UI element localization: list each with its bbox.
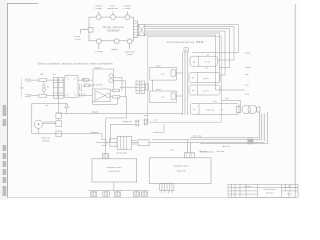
module U2 (sub-block 1)	[190, 56, 218, 66]
connector X7 (left side socket)	[88, 27, 93, 32]
filter capacitor C2	[80, 93, 82, 97]
svg-text:лист 1: лист 1	[287, 194, 292, 196]
connector X2 (top circle 2)	[112, 11, 114, 14]
svg-text:Вил ком: Вил ком	[217, 151, 225, 153]
transistor VT2	[109, 74, 113, 78]
lamp group wiring under box 1	[88, 182, 174, 196]
svg-text:вн пт: вн пт	[205, 62, 210, 64]
connector on top of box 2	[184, 153, 194, 158]
wire from T1 tap	[58, 98, 60, 103]
left bus wire	[31, 103, 33, 133]
input terminal 2	[28, 94, 31, 97]
pin connector under box 2	[160, 184, 175, 191]
svg-text:Общий: Общий	[91, 110, 99, 113]
oscillator sub-box	[92, 89, 110, 102]
module U5 (output amplifier)	[191, 103, 240, 114]
svg-text:дн: дн	[207, 55, 209, 57]
phase box 1 (Фазовая сетка ламп)	[92, 140, 211, 184]
svg-text:ЛЭ380ЛУ: ЛЭ380ЛУ	[107, 29, 120, 33]
jack down wire	[109, 124, 111, 142]
svg-text:цепь: цепь	[144, 115, 148, 117]
switch SA1	[34, 120, 42, 128]
module U4 (sub-block 3)	[189, 85, 220, 95]
connector X1 (top circle 1)	[98, 11, 100, 14]
harness bus panel-to-synchronizer	[145, 25, 239, 91]
wire box to coupler	[221, 101, 241, 107]
control panel unit A1 (Пульт запуска)	[89, 17, 133, 41]
svg-text:ламп 32-37: ламп 32-37	[108, 171, 120, 173]
svg-text:Схема блока: Схема блока	[264, 189, 277, 191]
bottom interconnect wiring	[96, 119, 268, 153]
feedback loop upper	[93, 69, 114, 89]
svg-text:дк шт: дк шт	[203, 78, 208, 80]
output wire to T2	[110, 90, 120, 92]
resistor R6	[113, 96, 120, 99]
svg-text:ламп ЛЧ: ламп ЛЧ	[177, 171, 186, 173]
svg-text:Фазовая сетка: Фазовая сетка	[107, 166, 122, 169]
cable line C (through assembly)	[96, 141, 264, 143]
connector X4 (bottom circle 1)	[98, 44, 100, 49]
svg-text:с сеточн.: с сеточн.	[123, 8, 132, 10]
lamp E2	[56, 121, 62, 127]
connector X5 (bottom circle 2)	[114, 39, 119, 44]
section heading	[38, 63, 113, 66]
svg-text:синхр: синхр	[245, 67, 251, 69]
lamp plug 1	[93, 191, 95, 192]
svg-text:общ: общ	[245, 94, 249, 96]
svg-text:гнездо изм: гнездо изм	[122, 121, 133, 123]
neon lamp HL1	[43, 85, 46, 88]
lamp plug 3	[117, 191, 119, 192]
plug XS1 with cross	[138, 25, 145, 36]
wires bus to box2	[188, 140, 191, 153]
comparator DA1	[95, 91, 105, 101]
wire 5	[145, 33, 220, 83]
connecting wires	[39, 103, 59, 133]
mains rail L	[29, 79, 65, 81]
resistor R3	[84, 84, 89, 87]
transistor VT3	[109, 79, 113, 83]
svg-text:изм лист: изм лист	[245, 186, 252, 188]
left margin stamp marks	[3, 105, 7, 196]
plug P1	[135, 120, 140, 127]
module cell marks and texts	[185, 50, 230, 111]
filter capacitor C1	[79, 85, 83, 91]
svg-text:общий: общий	[111, 48, 118, 51]
net labels right of harness	[245, 53, 251, 96]
fuse FU1	[39, 79, 47, 82]
svg-text:питания: питания	[266, 193, 274, 195]
input terminal 1	[28, 79, 31, 82]
svg-text:~220 В: ~220 В	[74, 39, 81, 41]
svg-text:лит: лит	[288, 186, 291, 188]
svg-text:дт: дт	[205, 67, 207, 69]
svg-text:сша ххв: сша ххв	[206, 109, 215, 111]
synchronizer unit A2 (Синхронизатор ЛБМ)	[148, 36, 221, 122]
coupling wires to T2	[88, 78, 125, 97]
resistor R5	[113, 89, 120, 92]
terminal labels above panel	[94, 6, 131, 11]
connector X6 (bottom circle 3)	[129, 44, 131, 49]
DIN device switch subcircuit	[32, 98, 183, 136]
wire 6	[145, 35, 220, 90]
return wire	[32, 133, 102, 135]
internal bus wire c	[186, 52, 188, 115]
relay block K2 (left lower)	[150, 91, 177, 103]
dc output wire -	[78, 95, 92, 97]
panel title text	[103, 25, 124, 32]
lamp E1	[56, 113, 62, 119]
svg-text:к пусковой: к пусковой	[124, 50, 135, 53]
transformer T1 winding I	[53, 77, 57, 98]
svg-text:вилка шир: вилка шир	[116, 153, 127, 155]
fuse FU2	[39, 94, 47, 97]
wire 3	[145, 29, 230, 68]
wire K1 to bus	[176, 72, 182, 74]
wire to mains	[80, 30, 88, 34]
svg-text:шк пт: шк пт	[203, 90, 208, 92]
phase box 2 (Фазовая сетка ЛЧ)	[149, 158, 211, 184]
wire oscillator to T2	[120, 86, 136, 88]
wire 1	[145, 25, 239, 53]
lamp plug 4	[136, 191, 138, 192]
component designator row	[19, 74, 103, 96]
wire U4 to label	[220, 89, 245, 91]
cable line D	[200, 142, 268, 144]
transformer T2	[120, 81, 149, 94]
frame right border	[294, 4, 296, 198]
diode VD3	[65, 103, 69, 107]
svg-text:R1 C3 VD2: R1 C3 VD2	[93, 84, 104, 86]
svg-text:Фазовая сетка: Фазовая сетка	[174, 165, 189, 168]
input pad U1	[184, 48, 188, 52]
terminal labels below panel	[74, 36, 136, 56]
wire down to phase box	[106, 97, 127, 154]
svg-text:дн т: дн т	[161, 97, 165, 99]
wire 2	[145, 27, 234, 61]
cable line A	[190, 137, 260, 139]
internal bus wire b	[184, 52, 186, 115]
lamp plug 5	[144, 191, 146, 192]
connector on cable K3	[248, 139, 254, 145]
plug P2	[144, 119, 149, 126]
stub wire	[200, 151, 214, 153]
common wire (Общий)	[56, 112, 183, 114]
svg-text:~220: ~220	[19, 88, 23, 90]
top wire	[32, 102, 67, 104]
inline connector assembly XT1	[102, 140, 106, 146]
svg-text:К сети: К сети	[74, 36, 81, 38]
cable line B	[152, 139, 262, 141]
test jack wire	[110, 123, 135, 125]
resistor R2	[83, 79, 88, 82]
svg-text:Возврат: Возврат	[91, 132, 99, 134]
connector on top of box 1	[102, 154, 108, 159]
dimension bracket	[20, 78, 22, 97]
lamp plug 2	[105, 191, 107, 192]
frame top-left segment	[8, 2, 39, 4]
lamp E3	[56, 131, 62, 137]
drain wire stub	[153, 124, 164, 132]
svg-text:Синхронизатор ЛБМ: Синхронизатор ЛБМ	[167, 40, 204, 44]
feedback loop wire	[93, 97, 118, 105]
rectifier bridge VD1	[65, 76, 78, 98]
mains rail N	[29, 95, 65, 97]
svg-text:Выкл дн: Выкл дн	[42, 138, 50, 140]
wire K2 to bus	[176, 95, 182, 97]
return drop	[101, 134, 103, 140]
svg-text:R4 VT2: R4 VT2	[95, 67, 101, 69]
lower output wire	[110, 96, 126, 98]
transformer T1 winding II	[59, 77, 63, 98]
svg-text:дн т: дн т	[161, 73, 165, 75]
relay block K1 (left upper)	[150, 67, 183, 102]
transistor VT1	[106, 94, 110, 98]
wire 4	[145, 31, 225, 75]
connector X3 (top circle 3)	[127, 11, 129, 14]
svg-text:имп: имп	[245, 74, 249, 76]
svg-text:каб соед: каб соед	[193, 136, 202, 138]
svg-text:Вил каб: Вил каб	[222, 146, 230, 148]
internal bus wire a	[182, 52, 184, 115]
svg-text:Блок стартового запуска сигнал: Блок стартового запуска сигнальных ламп …	[38, 63, 113, 66]
cable wires down from coupler	[260, 112, 268, 143]
module U3 (sub-block 2)	[189, 73, 220, 83]
dc output wire +	[78, 79, 92, 81]
wire K1-K2 link	[151, 80, 153, 91]
svg-text:к аноду: к аноду	[95, 51, 103, 53]
title block (основная надпись)	[228, 184, 298, 197]
svg-text:измерений: измерений	[107, 7, 118, 10]
frame bottom border	[8, 196, 296, 198]
svg-text:ат: ат	[221, 109, 223, 111]
cable coupler XS2/XP2	[236, 105, 267, 143]
svg-text:углов: углов	[245, 53, 251, 55]
connector strip XP1 (right edge of panel)	[133, 21, 137, 38]
sheet margin shade	[0, 0, 8, 200]
svg-text:с анодн.: с анодн.	[95, 8, 103, 10]
frame left border	[7, 3, 9, 197]
svg-text:кнопке: кнопке	[126, 54, 133, 56]
svg-text:прибор: прибор	[43, 140, 51, 142]
svg-text:Вил.каб: Вил.каб	[199, 151, 208, 153]
